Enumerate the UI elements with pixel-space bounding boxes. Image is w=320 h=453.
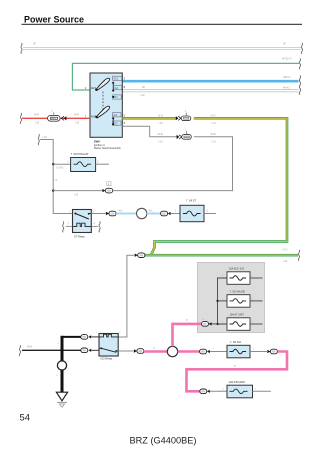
svg-text:W-R: W-R [74,112,79,116]
switch pin ACC [113,76,126,80]
svg-text:W-B: W-B [158,132,163,136]
oval connector to relay contact [81,348,99,353]
switch pin AM1 label [85,86,97,90]
component S4 ST [180,199,216,222]
harness break right of wire W [301,43,302,54]
svg-text:IG2 Relay: IG2 Relay [101,357,113,361]
page number [20,412,30,423]
svg-text:8: 8 [124,85,126,89]
svg-text:1: 1 [255,388,257,390]
wire P to S6 IG2 [178,349,255,354]
svg-text:AM2: AM2 [91,115,97,119]
svg-text:1: 1 [253,349,255,351]
harness break right of ST relay [99,222,100,233]
contact bridge IG2-ST2 [112,117,114,125]
svg-text:7: 7 [52,110,54,113]
svg-text:P: P [234,365,236,368]
svg-text:W: W [142,85,145,89]
svg-text:5: 5 [124,121,126,125]
svg-text:3: 3 [124,76,126,80]
connector on W-R wire [61,116,66,120]
relay ST Relay [66,210,98,239]
wire ST2 from switch [122,126,216,143]
svg-text:ST1: ST1 [114,97,119,99]
component S9 PUSH-AT [53,152,109,172]
splice circle [167,346,177,356]
connector left of A/B MAIN [200,389,227,394]
wire to connector (ST return) [53,191,102,197]
svg-text:1: 1 [69,210,71,213]
connector panel entry [202,319,218,326]
svg-text:4: 4 [94,223,96,226]
svg-text:7. S4 ST: 7. S4 ST [186,199,197,203]
svg-text:BRZ (G4400BE): BRZ (G4400BE) [130,435,197,445]
svg-text:10A AT UNIT: 10A AT UNIT [230,314,245,317]
svg-text:1: 1 [67,160,69,163]
svg-text:Starter Switch Assembly: Starter Switch Assembly [94,147,122,150]
svg-text:I-10: I-10 [43,135,48,139]
harness break right of G-Y bottom [298,250,299,261]
wire ACC (blue) [122,75,298,81]
svg-text:W-L: W-L [149,209,154,212]
svg-text:1: 1 [185,128,187,131]
wire to ST circuit (left vertical) [40,135,73,214]
svg-text:FL15: FL15 [51,118,55,120]
svg-text:7. S9 PUSH-AT: 7. S9 PUSH-AT [71,152,89,156]
harness break left of ST relay [63,222,64,233]
component S6 IG2 [227,340,267,358]
switch arm AM2 [95,106,109,118]
svg-text:4: 4 [58,343,60,345]
switch pin AM2 label [85,115,97,119]
svg-text:3: 3 [207,210,209,213]
contact bridge ACC-IG1 [112,82,114,98]
svg-text:G-O: G-O [158,114,163,118]
svg-text:I-10: I-10 [212,141,217,144]
svg-text:P: P [154,347,156,350]
fuse F3 [182,128,192,139]
svg-text:1: 1 [96,332,98,334]
svg-text:I-10: I-10 [75,122,80,125]
svg-text:W-B: W-B [27,344,32,348]
footer model code [130,435,197,445]
svg-text:10A A/B MAIN: 10A A/B MAIN [229,380,246,384]
harness break left of I-10 wire [38,134,39,145]
harness break left of wire W [21,43,22,54]
wire P up to panel [173,319,202,346]
svg-text:7. S6 GAUGE: 7. S6 GAUGE [230,291,246,294]
svg-text:ACC: ACC [113,78,118,81]
svg-text:1: 1 [213,349,215,351]
svg-text:4: 4 [56,375,58,377]
svg-text:I-10: I-10 [35,122,40,125]
svg-text:Power Source: Power Source [24,15,84,25]
fuse panel [198,263,265,333]
connector right of S6 IG2 [267,349,277,354]
svg-text:10A ECU IG2: 10A ECU IG2 [229,268,245,271]
svg-text:I-10: I-10 [159,141,164,144]
harness break right (blue + W wires) [299,76,300,95]
svg-text:G-O: G-O [283,248,288,252]
svg-text:W: W [283,42,286,46]
wire W from IG1 (double line) [122,85,298,97]
svg-text:W: W [33,42,36,46]
svg-text:(-2 AT): (-2 AT) [56,167,64,170]
svg-text:I-2: I-2 [55,179,58,182]
relay IG2 Relay [96,332,122,360]
harness break right of green wire [299,58,300,69]
svg-text:I-10: I-10 [140,93,145,97]
svg-text:6: 6 [124,113,126,117]
wire W main feed (top, white double line) [23,42,301,50]
svg-text:ST Relay: ST Relay [74,235,85,239]
svg-text:SBI G: SBI G [283,75,290,79]
svg-text:W-R: W-R [34,112,39,116]
connector on ST2 wire [177,135,182,139]
connector on G-Y bottom (left) [135,253,145,258]
svg-text:I-10: I-10 [283,260,288,263]
svg-text:P: P [186,319,188,322]
fuse 7 S6 GAUGE [222,291,262,308]
wire to pink splice [118,349,144,354]
svg-text:I-10: I-10 [212,122,217,125]
svg-text:W-L: W-L [119,209,124,212]
wire G-Y from IG2 (left of fuse) [122,114,176,126]
svg-text:4N-G: 4N-G [283,85,290,89]
svg-text:2: 2 [119,332,121,334]
svg-text:I-10: I-10 [74,193,79,196]
switch pin ST2 [112,121,125,125]
fuse 10A AT UNIT [222,314,262,331]
ignition switch body [90,73,122,137]
svg-text:W-B: W-B [211,132,216,136]
svg-text:G-O: G-O [211,114,216,118]
svg-text:1: 1 [185,110,187,113]
switch pin IG1 [113,85,125,90]
joint connector circle [57,361,66,370]
svg-text:2: 2 [98,160,100,163]
svg-text:3: 3 [68,223,70,226]
fuse F1 (main fuse) [48,110,61,121]
wire W-B ground bus [22,336,81,392]
connector on ST return [102,182,112,193]
fuse 10A ECU IG2 [222,268,262,285]
switch pin ST1 [113,95,122,99]
svg-text:AM1: AM1 [91,86,97,90]
wire gray link to IG2 relay coil [118,255,134,337]
title Power Source [22,15,303,25]
harness break left of W-B [19,345,20,356]
wire W-L to starter [91,208,180,218]
ground [56,392,67,407]
svg-text:1: 1 [175,210,177,213]
component A/B MAIN [227,380,271,398]
panel bus [216,278,227,325]
svg-text:W-32 G: W-32 G [282,57,292,61]
wire W-R to AM2 [22,112,90,124]
wire P loop to A/B MAIN [187,352,288,392]
svg-text:1: 1 [223,389,225,391]
svg-text:54: 54 [20,412,30,423]
svg-text:I-10: I-10 [159,122,164,125]
wire G to ignition switch AM1 (green loop) [72,57,299,90]
mechanical link dashed [102,92,104,112]
wire ST2 loop (fuse to connector) [113,137,233,191]
connector on G-Y wire [176,116,181,120]
switch pin IG2 [112,113,125,118]
wire G-Y bottom run [145,248,298,263]
switch arm AM1 [95,78,110,91]
oval connector to relay coil [81,335,99,340]
harness break left of W-R [20,113,21,124]
svg-text:7. S6 IG2: 7. S6 IG2 [230,340,242,344]
fuse F2 [181,110,191,121]
switch assembly label [94,140,122,150]
wire G-Y loop (right side) [151,114,287,256]
wire P from relay to splice [144,347,167,352]
svg-text:2: 2 [93,210,95,213]
